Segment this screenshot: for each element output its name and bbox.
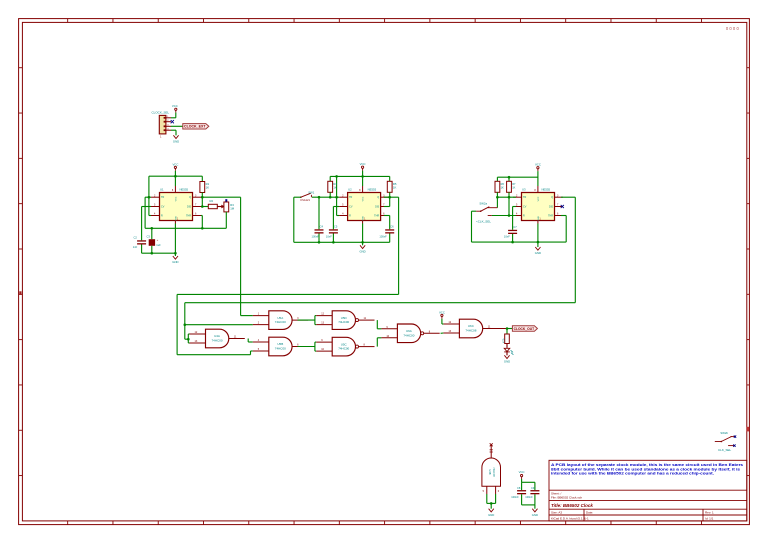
gate U6A 74HC00 NAND [397,324,420,343]
svg-text:R6: R6 [501,182,505,186]
wire U1 VCC pin [174,176,176,186]
svg-text:VCC: VCC [172,162,178,166]
svg-text:C2: C2 [133,236,137,240]
gate U5B 74HC00 [269,337,292,356]
svg-text:74HC00: 74HC00 [338,347,349,351]
svg-text:Q: Q [551,196,553,199]
svg-text:GND: GND [363,216,365,221]
svg-text:VCC: VCC [535,163,541,167]
svg-text:1M: 1M [230,206,235,210]
capacitor C3 polarized [151,228,153,239]
svg-text:C9: C9 [531,486,535,490]
svg-text:TR: TR [349,196,352,199]
svg-text:1nF: 1nF [133,245,138,249]
svg-text:10nF: 10nF [504,235,510,239]
wire U3 GND pin down [537,224,539,248]
wire U2 Q down and across [398,197,400,294]
title block [549,460,747,521]
wire U2 GND pin down [362,224,364,246]
svg-text:KiCad E.D.A. kicad (5.1.8)-1: KiCad E.D.A. kicad (5.1.8)-1 [551,517,589,521]
junction R6 TR [496,196,499,199]
wire R4 to TR row [329,192,331,197]
svg-text:SW2b: SW2b [720,431,728,435]
svg-text:R2: R2 [210,199,214,203]
wire to U5A input B [185,324,253,326]
svg-text:A PCB layout of the separate c: A PCB layout of the separate clock modul… [551,463,743,467]
wire R5 to DIS row [389,192,391,206]
svg-text:1K: 1K [393,186,397,190]
resistor R1 [201,176,203,181]
svg-text:NE555: NE555 [180,188,189,192]
wire R2 to pot [217,206,221,208]
op IC U2 NE555 [348,193,381,221]
wire VCC to reset drop [336,176,338,215]
junction feed U5A input B [184,323,187,326]
wire R6 down to switch [496,192,498,207]
wire VCC rail U2 [362,171,364,177]
ground at J1 [173,135,178,138]
wire left vertical to reset [148,176,150,215]
svg-text:R: R [349,215,351,218]
svg-text:CV: CV [161,206,165,209]
svg-text:C4: C4 [320,225,324,229]
wire J1 pin 4 to GND [171,129,176,131]
svg-text:VCC: VCC [439,310,445,314]
svg-text:C3: C3 [147,235,151,239]
junction C4 bottom [318,241,321,244]
svg-text:1K: 1K [333,186,337,190]
wire to U4A tied inputs [185,338,189,340]
svg-text:74HC00: 74HC00 [338,320,349,324]
svg-text:Date:: Date: [586,511,593,515]
svg-text:74HC00: 74HC00 [275,347,286,351]
svg-text:1K: 1K [512,185,515,189]
wire LED to GND [506,352,508,355]
svg-text:GND: GND [175,216,177,221]
svg-text:DIS: DIS [375,206,379,209]
svg-text:100nF: 100nF [379,234,387,238]
svg-text:74HC00: 74HC00 [275,320,286,324]
resistor R4 [329,176,331,181]
gate U5D 74HC00 NAND [332,311,355,330]
wire U5B out to U5C inputs [298,346,315,348]
svg-text:THR: THR [186,215,191,218]
gate U5C 74HC00 NAND [332,337,355,356]
junction VCC U2 [361,175,364,178]
svg-text:KSA121: KSA121 [300,198,310,202]
svg-text:U4B: U4B [488,469,492,474]
U4B input stubs [486,486,488,494]
svg-text:R7: R7 [512,182,516,186]
svg-text:CV: CV [523,206,527,209]
wire U2 output Q [384,196,399,198]
svg-text:R: R [523,215,525,218]
wire VCC bypass rail [521,479,523,482]
junction reset drop at TR row [335,196,338,199]
ground at U4B [489,509,494,512]
svg-text:C6: C6 [390,225,394,229]
svg-text:VCC: VCC [538,196,540,201]
svg-text:SW2a: SW2a [479,202,487,206]
svg-text:C8: C8 [517,486,521,490]
wire R1 to DIS [201,193,203,207]
wire U5C out to U6A input B [376,338,378,347]
svg-text:VCC: VCC [172,104,178,108]
LED D1 [506,344,508,348]
svg-text:74HC08: 74HC08 [465,329,476,333]
svg-text:Q: Q [189,196,191,199]
no-connect U3 DIS [561,205,564,208]
wire U3 Q down and across [574,197,576,303]
svg-text:CLK_SEL: CLK_SEL [718,448,732,452]
wire U5A out to U5D inputs [298,319,315,321]
wire CV to C7 [513,206,516,208]
svg-text:THR: THR [548,215,553,218]
svg-text:intended for use with the BB65: intended for use with the BB6502 compute… [551,472,714,476]
wire U1 output Q [201,196,241,198]
svg-text:1K: 1K [206,186,210,190]
gate U6C 74HC08 output [459,319,482,338]
op IC U3 NE555 [522,193,555,221]
capacitor C5 [329,229,338,230]
trimmer R3 [224,202,229,212]
U4B output pin up with no-connect [490,445,492,458]
svg-text:CLOCK_EXT: CLOCK_EXT [184,125,206,129]
gate U4A 74HC00 inverter [206,329,229,348]
svg-text:100nF: 100nF [511,495,519,499]
wire VCC rail U3 [537,171,539,186]
svg-text:8: 8 [359,189,361,192]
wire R7 down to reset row [508,192,510,215]
svg-text:VCC: VCC [363,196,365,201]
wire TR to threshold rail [144,197,146,228]
svg-text:C5: C5 [334,225,338,229]
wire U5D out to U6A input A [376,320,378,329]
svg-text:TR: TR [161,196,164,199]
resistor R6 [496,177,498,181]
junction C3 top [151,227,154,230]
wire VCC to U6C input A [441,319,443,324]
svg-text:Title: BB6502 Clock: Title: BB6502 Clock [551,503,593,508]
junction TR row [148,196,151,199]
wire VCC to J1 pin 1 [175,113,177,118]
svg-text:DIS: DIS [549,206,553,209]
svg-text:CLOCK_OUT: CLOCK_OUT [514,327,535,331]
op IC U1 NE555 [160,193,193,221]
capacitor C8 [521,482,523,490]
svg-text:Size: A3: Size: A3 [551,511,562,515]
svg-text:U3: U3 [522,188,526,192]
wire CV to C2 [142,206,151,208]
ground at LED [504,355,509,358]
ground at bypass caps [532,509,537,512]
wire SW1 left to GND rail [294,196,301,198]
svg-text:GND: GND [535,251,541,255]
resistor R2 [208,204,217,208]
gate U4B unused vertical [482,458,501,486]
svg-text:GND: GND [538,216,540,221]
junction R1 DIS [201,205,204,208]
svg-text:THR: THR [374,215,379,218]
junction R7 top [508,176,511,179]
resistor R7 [508,177,510,181]
svg-text:CLOCK_SEL: CLOCK_SEL [152,110,170,114]
svg-text:GND: GND [173,140,179,144]
svg-text:8bit computer build. While it: 8bit computer build. While it can be use… [551,467,740,471]
svg-text:TR: TR [523,196,526,199]
svg-text:VCC: VCC [175,196,177,201]
svg-text:Rev: 1: Rev: 1 [705,511,714,515]
junction THR rail [201,227,204,230]
wire U3 output Q [561,196,575,198]
svg-text:8: 8 [172,189,174,192]
svg-text:1: 1 [160,135,162,139]
junction R5 Q crossing [388,196,391,199]
svg-text:10nF: 10nF [326,234,332,238]
svg-text:U1: U1 [160,188,164,192]
ground at U3 [535,247,540,250]
junction C5 bottom [332,241,335,244]
svg-text:<CLK_SEL: <CLK_SEL [476,220,491,224]
wire U4A out to U5B input A [247,339,249,343]
resistor R8 [506,329,508,335]
svg-text:74HC00: 74HC00 [403,333,414,337]
wire DIS row [201,206,208,208]
svg-text:NE555: NE555 [542,188,551,192]
svg-text:C7: C7 [513,225,517,229]
junction reset drop at rail [335,175,338,178]
junction R7 TR crossing [508,196,511,199]
wire threshold rail [145,227,226,229]
svg-text:CV: CV [349,206,353,209]
svg-text:VCC: VCC [519,470,525,474]
wire U1 GND pin down [174,224,176,257]
wire TR row [145,196,151,198]
svg-text:8: 8 [534,189,536,192]
ground at U2 [360,245,365,248]
svg-text:R: R [161,215,163,218]
ground at U1 [173,256,178,259]
gate U5A 74HC00 [269,311,292,330]
global label CLOCK_OUT [512,326,537,331]
svg-text:DIS: DIS [187,206,191,209]
junction R7 reset row [508,214,511,217]
no-connect on J1 pin 2 [171,120,174,123]
svg-text:VCC: VCC [360,162,366,166]
wire SW2 common to GND rail [472,210,477,212]
svg-text:GND: GND [488,513,494,517]
svg-text:1K: 1K [501,185,504,189]
capacitor C9 [534,482,536,490]
svg-text:File: BB6502 Clock.sch: File: BB6502 Clock.sch [551,496,582,500]
svg-text:74HC00: 74HC00 [492,467,496,477]
wire bypass GND rail [522,504,535,506]
svg-text:1uF: 1uF [156,243,161,247]
junction output node [506,327,509,330]
wire THR loop [561,215,566,217]
wire TR row U3 [497,196,516,198]
wire VCC rail U1 [174,171,176,176]
svg-text:Q: Q [377,196,379,199]
svg-text:GND: GND [532,513,538,517]
svg-text:470: 470 [501,338,505,343]
wire GND rail U1 [142,252,176,254]
wire CV to C5 [333,206,339,208]
svg-text:GND: GND [359,250,365,254]
svg-text:100nF: 100nF [312,234,320,238]
wire TR row U2 [312,196,339,198]
wire U4B inputs tied to GND [486,494,488,503]
svg-text:GND: GND [172,260,178,264]
wire THR down [201,215,202,217]
svg-text:74HC00: 74HC00 [211,339,222,343]
global label CLOCK_EXT [183,124,209,129]
junction R1 Q crossing [201,196,204,199]
wire GND rail U3 [472,241,567,243]
junction C7 bottom [511,241,514,244]
wire pot bottom to threshold rail [225,212,227,228]
svg-text:NE555: NE555 [368,188,377,192]
wire J1 pin 3 to CLOCK_EXT label [171,125,183,127]
wire THR to C6 [384,215,390,217]
capacitor C7 [508,230,517,231]
svg-text:+: + [157,238,159,242]
wire reset row U3 [492,215,516,217]
junction VCC U1 [174,175,177,178]
svg-text:5: 5 [483,490,485,493]
junction C4 top [318,196,321,199]
svg-text:0000: 0000 [726,26,740,31]
svg-text:6: 6 [498,490,500,493]
wire U6A out to U6C input B [441,332,444,334]
junction R4 TR [329,196,332,199]
wire GND rail U2 [294,241,390,243]
svg-text:U2: U2 [348,188,352,192]
capacitor C4 [318,197,320,229]
capacitor C2 [137,240,146,241]
svg-text:100nF: 100nF [525,495,533,499]
junction GND rail [151,252,154,255]
wire U2 VCC pin [362,176,364,186]
resistor R5 [389,176,391,181]
capacitor C6 [385,229,394,230]
wire to CLOCK_OUT label [507,328,512,330]
wire U1 Q down to U5A input A [240,197,242,315]
svg-text:GND: GND [504,360,510,364]
svg-text:Id: 1/1: Id: 1/1 [705,517,714,521]
